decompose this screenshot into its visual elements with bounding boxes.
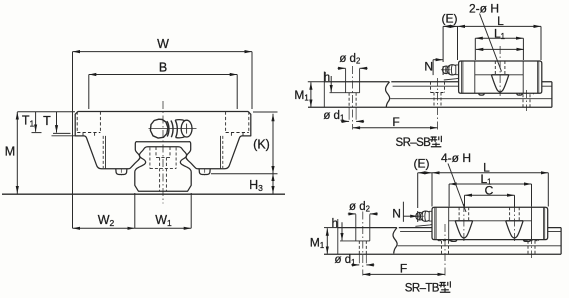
block left seal foot xyxy=(116,169,127,175)
dimension (K) xyxy=(272,114,274,174)
svg-text:(E): (E) xyxy=(414,156,430,170)
block body side edge left xyxy=(105,136,107,169)
TB dimension phi-d1 xyxy=(351,264,359,266)
TB grease nipple ball xyxy=(420,211,429,221)
rail bolt hole 1 d1 (dashed) xyxy=(349,93,356,108)
SB tapped hole funnel xyxy=(491,75,508,92)
SB dimension (E) xyxy=(443,25,457,27)
block right seal foot xyxy=(199,169,210,175)
TB rail hole 1 d1 extension below xyxy=(359,254,366,263)
SB dimension L xyxy=(458,25,542,27)
grease nipple cap xyxy=(175,120,185,138)
TB hole1 centerline xyxy=(362,212,364,276)
SB grease nipple boss xyxy=(456,65,459,75)
TB funnel2 centerline xyxy=(513,204,515,242)
block hidden groove edges (dashed) xyxy=(150,148,176,169)
TB block end seal lines left xyxy=(435,207,436,239)
TB 4-phiH leader xyxy=(448,164,466,213)
TB rail left end face xyxy=(337,219,339,254)
TB tapped hole 1 funnel xyxy=(455,221,472,238)
dimension M xyxy=(16,112,18,194)
SB hole1 centerline xyxy=(352,66,354,130)
TB rail bolt hole 1 d1 (dashed) xyxy=(359,241,366,254)
TB hole3 centerline xyxy=(531,236,533,258)
wing bolt hole left (dashed) xyxy=(77,112,249,192)
SB funnel centerline xyxy=(499,46,501,96)
rail side top segment left of break xyxy=(324,81,389,83)
grease nipple front: hex ball xyxy=(150,119,168,138)
svg-text:SR–TB: SR–TB xyxy=(405,282,440,294)
TB block mid horizontal line xyxy=(449,220,532,222)
TB nipple rib arcs xyxy=(419,211,426,221)
dimension H3 xyxy=(272,174,274,194)
SB nipple boss bottom shelf xyxy=(444,78,459,80)
TB nipple boss bottom shelf xyxy=(415,225,432,227)
TB rail bolt hole 2 (dashed) xyxy=(438,240,452,255)
SB grease nipple tip xyxy=(443,66,448,74)
SB dimension hole pitch xyxy=(476,48,524,50)
rail front profile xyxy=(135,147,191,191)
dimension W xyxy=(73,51,253,53)
TB dimension C xyxy=(465,194,515,196)
SB dimension N xyxy=(433,59,443,61)
SB hole2 centerline xyxy=(437,78,439,130)
TB rail top edge right of break xyxy=(399,227,561,229)
wing bottom extension line xyxy=(52,135,76,137)
SB dimension h xyxy=(330,76,332,92)
block body side edge right xyxy=(220,136,222,169)
TB grease nipple tip xyxy=(416,212,421,220)
rail bolt hole 3 (dashed) xyxy=(520,93,534,107)
svg-text:h: h xyxy=(332,218,338,230)
nipple horizontal centerline xyxy=(149,128,197,130)
TB rail top segment left of break xyxy=(338,227,397,229)
SB block foot right xyxy=(517,93,523,95)
svg-text:F: F xyxy=(400,262,407,276)
svg-text:F: F xyxy=(392,115,399,129)
block body hidden edge left (dashed) xyxy=(102,136,104,168)
TB tapped hole 2 funnel xyxy=(506,221,523,238)
SB block body boundary lines xyxy=(475,61,523,93)
TB rail bolt hole 3 (dashed) xyxy=(525,240,539,255)
SB dimension phi-d1 xyxy=(341,120,349,122)
rail bolt hole 2 (dashed) xyxy=(431,82,445,108)
svg-text:SR–SB: SR–SB xyxy=(396,137,432,149)
block body hidden edge right (dashed) xyxy=(222,136,224,168)
dimension W1 xyxy=(135,227,191,229)
rail break S-curve xyxy=(386,82,390,108)
dimension B xyxy=(89,74,237,76)
SB block outline xyxy=(459,61,542,93)
svg-text:N: N xyxy=(392,206,401,220)
SB block foot left xyxy=(479,93,485,95)
grease nipple cap ellipse xyxy=(181,120,192,137)
TB rail right end face xyxy=(560,228,562,255)
TB dimension phi-d2 xyxy=(348,213,356,215)
SB dimension phi-d2 xyxy=(338,67,346,69)
SB 2-phiH leader xyxy=(480,14,502,72)
grease nipple cap tick xyxy=(186,124,188,134)
TB tapped hole 1 throat (dashed) xyxy=(459,207,469,221)
TB block outline xyxy=(432,207,548,239)
TB block body boundary lines xyxy=(449,207,532,239)
SB hole3 centerline xyxy=(526,90,528,111)
TB tapped hole 2 throat (dashed) xyxy=(510,207,520,221)
carriage block front outline xyxy=(75,112,251,169)
TB dimension (E) xyxy=(418,172,432,174)
svg-text:(K): (K) xyxy=(253,138,270,152)
rail lower side line xyxy=(390,98,552,100)
grease nipple ribs xyxy=(167,120,177,137)
TB rail lower side line xyxy=(398,245,561,247)
TB dimension F xyxy=(363,273,445,275)
svg-text:T: T xyxy=(43,114,51,128)
rail side groove line xyxy=(393,85,552,87)
ground baseline xyxy=(2,193,285,195)
rail top edge right of break xyxy=(391,81,552,83)
svg-text:N: N xyxy=(424,59,433,73)
SB nipple axis tick xyxy=(441,69,451,71)
wing bolt hole right (dashed) xyxy=(226,112,249,136)
rail bolt hole front (dashed) xyxy=(156,147,170,191)
SB block mid horizontal line xyxy=(475,74,523,76)
SB tapped hole throat (dashed) xyxy=(495,61,505,75)
TB dimension h xyxy=(341,222,343,240)
svg-text:C: C xyxy=(485,183,494,197)
TB dimension M1 xyxy=(326,228,328,254)
SB grease nipple ball xyxy=(447,65,456,75)
SB dimension L1 xyxy=(475,37,523,39)
svg-text:W: W xyxy=(157,37,169,51)
svg-text:h: h xyxy=(324,72,330,84)
dimension W2 xyxy=(73,227,135,229)
svg-text:(E): (E) xyxy=(442,12,458,26)
SB dimension F xyxy=(353,127,438,129)
SB block end seal lines right xyxy=(538,61,539,93)
TB rail bolt hole 1 counterbore (sectioned) xyxy=(340,214,370,241)
front view vertical centerline xyxy=(162,101,164,204)
TB dimension N xyxy=(403,215,417,217)
dimension T xyxy=(56,112,58,133)
TB block end seal lines right xyxy=(543,207,544,239)
SB dimension M1 xyxy=(310,82,312,107)
rail hole 1 d1 extension below xyxy=(349,107,356,119)
TB nipple axis tick xyxy=(414,215,424,217)
svg-text:B: B xyxy=(159,61,167,75)
TB grease nipple boss xyxy=(429,211,432,221)
TB hole2 centerline xyxy=(444,224,446,276)
TB block foot left xyxy=(450,240,457,242)
rail right end face xyxy=(551,82,553,108)
TB rail side groove line xyxy=(400,230,561,232)
svg-text:4-ø H: 4-ø H xyxy=(441,151,471,165)
TB block foot right xyxy=(523,240,530,242)
TB dimension L1 xyxy=(449,183,531,185)
rail left end face xyxy=(323,72,325,108)
TB dimension L xyxy=(432,172,548,174)
foot centerline ticks xyxy=(121,169,204,177)
TB rail bottom edge xyxy=(324,253,561,255)
SB nipple rib arcs xyxy=(446,65,453,75)
TB rail break S-curve xyxy=(393,228,397,254)
rail bottom edge xyxy=(308,106,552,108)
rail bolt hole 1 counterbore (sectioned) xyxy=(330,69,360,93)
SB block end seal lines left xyxy=(462,61,463,93)
svg-text:M: M xyxy=(5,145,15,159)
svg-text:2-ø H: 2-ø H xyxy=(469,2,499,16)
TB funnel1 centerline xyxy=(463,204,465,242)
dimension T1 xyxy=(35,112,37,132)
